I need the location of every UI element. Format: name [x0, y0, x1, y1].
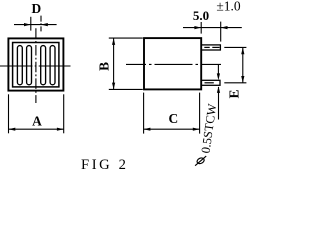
- wire diameter upper arrow tail: [217, 64, 219, 74]
- dimension A extension line left: [8, 94, 10, 133]
- slot 1: [17, 46, 22, 85]
- dimension B line: [113, 38, 115, 89]
- dimension 5.0 extension line left: [200, 22, 202, 34]
- slot 3: [41, 46, 46, 85]
- dimension 5.0 right arrowhead: [221, 26, 228, 29]
- front view vertical centerline: [35, 28, 37, 103]
- top pin centerline: [204, 46, 209, 48]
- svg-text:A: A: [32, 114, 42, 129]
- dimension C extension line left: [143, 93, 145, 134]
- front view inner frame: [13, 43, 59, 87]
- side view horizontal centerline: [126, 63, 221, 65]
- label wire spec φ0.5STCW: [195, 156, 206, 166]
- dimension D right arrowhead: [41, 23, 48, 26]
- front view outer frame: [8, 38, 63, 90]
- svg-text:D: D: [31, 1, 41, 16]
- wire diameter upper arrowhead: [217, 73, 220, 80]
- dimension E top extension line: [224, 46, 246, 48]
- svg-text:C: C: [168, 111, 178, 126]
- dimension C line: [144, 128, 200, 130]
- svg-text:5.0: 5.0: [193, 8, 209, 23]
- slot 2: [27, 46, 32, 85]
- dimension A extension line right: [63, 94, 65, 133]
- slot 4: [50, 46, 55, 85]
- bottom pin centerline: [205, 82, 214, 84]
- front view horizontal centerline: [0, 65, 71, 67]
- wire diameter lower arrow tail: [218, 87, 220, 120]
- dimension C left arrowhead: [144, 128, 151, 131]
- dimension E line: [242, 47, 244, 82]
- dimension C extension line right: [199, 93, 201, 134]
- dimension B top extension line: [109, 37, 143, 39]
- dimension D extension line left: [30, 17, 32, 31]
- dimension D left arrowhead: [24, 23, 31, 26]
- svg-text:B: B: [97, 62, 112, 71]
- dimension B top arrowhead: [112, 38, 115, 45]
- svg-text:±1.0: ±1.0: [216, 0, 241, 14]
- dimension A line: [9, 128, 64, 130]
- wire diameter lower arrowhead: [217, 86, 220, 93]
- side view body: [144, 38, 201, 89]
- dimension B bottom arrowhead: [112, 83, 115, 90]
- dimension D line: [14, 24, 57, 26]
- dimension A left arrowhead: [9, 128, 16, 131]
- svg-text:E: E: [226, 89, 241, 98]
- dimension A right arrowhead: [57, 128, 64, 131]
- dimension 5.0 line: [183, 27, 242, 29]
- svg-text:FIG 2: FIG 2: [81, 157, 128, 172]
- dimension C right arrowhead: [193, 128, 200, 131]
- dimension E bottom extension line: [224, 82, 246, 84]
- dimension E top arrowhead: [241, 47, 244, 54]
- dimension D extension line right: [40, 16, 42, 32]
- dimension E bottom arrowhead: [241, 76, 244, 83]
- bottom pin: [201, 80, 220, 85]
- dimension 5.0 extension line right: [220, 22, 222, 42]
- dimension 5.0 left arrowhead: [194, 26, 201, 29]
- top pin: [201, 45, 220, 50]
- dimension B bottom extension line: [109, 88, 143, 90]
